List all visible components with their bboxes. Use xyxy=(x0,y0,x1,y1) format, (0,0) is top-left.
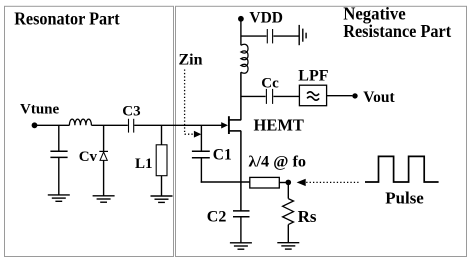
capacitor C3 xyxy=(129,119,134,133)
wire: LPF to Vout xyxy=(327,95,353,97)
svg-text:λ/4 @ fo: λ/4 @ fo xyxy=(249,153,307,170)
wire: HEMT source down to C2 xyxy=(240,131,242,211)
ground (L1) xyxy=(151,196,173,202)
wire: HEMT drain to choke xyxy=(240,72,242,120)
svg-text:Zin: Zin xyxy=(179,52,203,69)
inductor (RF choke) xyxy=(241,44,248,73)
wire: inductor to C3 xyxy=(91,124,127,126)
node VDD xyxy=(238,16,244,22)
ground (Rs) xyxy=(277,243,299,249)
pulse source waveform xyxy=(365,156,439,182)
capacitor Cc xyxy=(241,89,300,104)
gate arrow head xyxy=(221,122,228,128)
svg-text:Vtune: Vtune xyxy=(20,102,60,118)
capacitor (VDD bypass) xyxy=(241,29,299,43)
wire: TL to pulse node xyxy=(279,182,286,184)
wire: C3 to HEMT gate xyxy=(134,124,222,126)
svg-text:LPF: LPF xyxy=(298,68,328,85)
node Vout xyxy=(352,93,357,98)
capacitor (shunt, at Vtune) xyxy=(50,125,67,195)
svg-text:Vout: Vout xyxy=(363,89,395,106)
svg-text:Cc: Cc xyxy=(261,76,279,92)
label: Negative Resistance Part xyxy=(343,4,451,41)
svg-text:VDD: VDD xyxy=(249,10,283,27)
Zin probe dotted line xyxy=(185,70,194,135)
ground (C2) xyxy=(230,243,252,249)
svg-text:Cv: Cv xyxy=(79,149,98,165)
svg-text:C2: C2 xyxy=(207,208,227,225)
transmission line lambda/4 xyxy=(250,177,279,188)
Zin arrow head xyxy=(194,131,201,138)
frame: Negative Resistance Part box xyxy=(176,6,467,256)
ground (shunt cap) xyxy=(48,195,70,201)
svg-text:Rs: Rs xyxy=(298,207,317,226)
svg-text:L1: L1 xyxy=(135,156,153,172)
svg-text:Pulse: Pulse xyxy=(385,188,424,207)
varactor Cv xyxy=(99,125,108,196)
wire: VDD to choke xyxy=(240,19,242,46)
wire: C1 node to transmission line xyxy=(201,181,250,183)
inductor L1 xyxy=(156,125,167,196)
node Vtune (terminal dot) xyxy=(32,122,38,128)
svg-text:C1: C1 xyxy=(213,146,232,163)
pulse arrow head xyxy=(297,179,306,186)
node pulse injection xyxy=(286,180,292,186)
ground (varactor) xyxy=(93,196,115,202)
resistor Rs xyxy=(283,185,294,243)
svg-text:C3: C3 xyxy=(122,103,140,119)
wire: Vtune to series inductor xyxy=(35,124,70,126)
LPF block xyxy=(299,85,326,106)
capacitor C1 xyxy=(192,125,210,182)
transistor HEMT xyxy=(229,116,241,134)
capacitor C2 xyxy=(233,211,250,243)
ground (bypass, rotated) xyxy=(299,25,306,45)
svg-text:Resistance Part: Resistance Part xyxy=(343,21,451,41)
dotted line from Pulse xyxy=(306,181,358,183)
svg-text:Resonator Part: Resonator Part xyxy=(14,9,120,29)
inductor (series, resonator) xyxy=(69,119,91,125)
svg-text:HEMT: HEMT xyxy=(254,116,304,135)
frame: Resonator Part box xyxy=(5,6,174,256)
